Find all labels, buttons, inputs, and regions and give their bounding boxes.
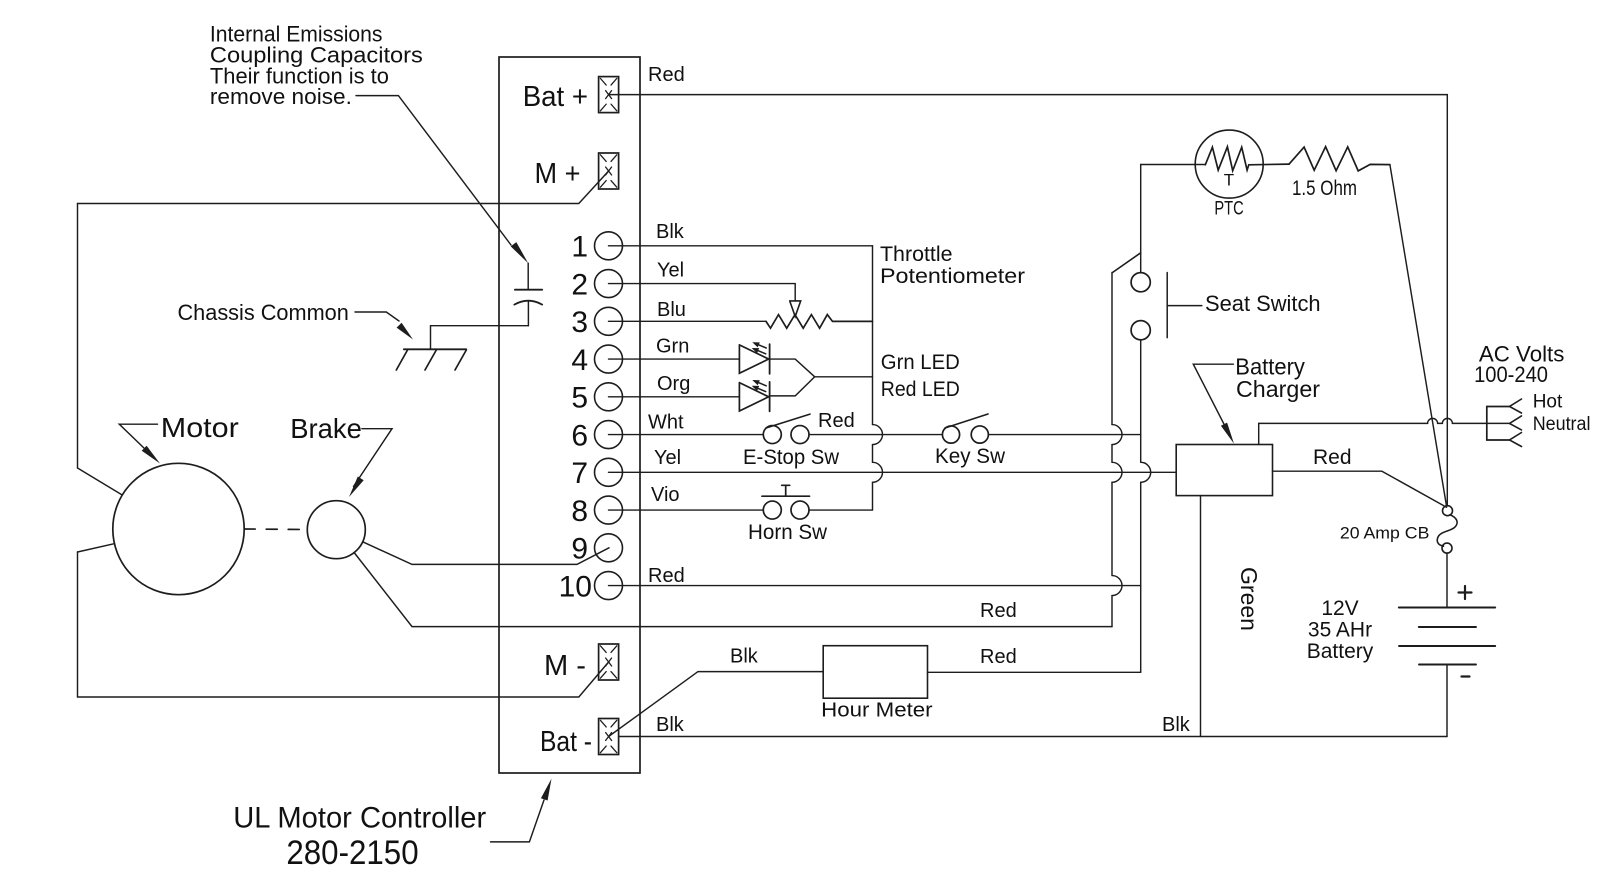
- svg-text:Brake: Brake: [290, 413, 362, 444]
- wire capacitor to chassis: [431, 326, 529, 350]
- wire seat sw to PTC: [1141, 164, 1206, 166]
- label Hour Meter: [821, 700, 933, 722]
- svg-text:Blk: Blk: [656, 221, 685, 243]
- wire left frame lower vertical: [77, 552, 79, 697]
- label 20 Amp CB: [1340, 523, 1430, 542]
- battery BT1 12V: [1399, 608, 1495, 665]
- wire pin7 Yel to charger: [609, 471, 1177, 473]
- pin 3 circle: [595, 307, 623, 335]
- label Red (e-stop): [818, 410, 855, 432]
- vertical bus x=872.5 with hops: [873, 246, 883, 510]
- label Battery Charger: [1235, 353, 1320, 402]
- wire LED merge chevron: [770, 359, 873, 396]
- label Horn Sw: [748, 521, 828, 544]
- wire pin6 Wht: [609, 434, 764, 436]
- svg-text:M -: M -: [544, 650, 586, 682]
- svg-text:Grn LED: Grn LED: [881, 351, 960, 374]
- seat switch S1: [1113, 165, 1151, 340]
- shaft motor-brake dashed: [244, 528, 307, 531]
- wire AC neutral with bumps: [1259, 418, 1510, 423]
- pin 4 number: [571, 344, 588, 377]
- wire horn sw to vertical: [809, 509, 873, 511]
- wire Bat- diag to hour meter: [609, 672, 824, 737]
- leader battery charger: [1193, 364, 1234, 444]
- svg-text:5: 5: [571, 382, 588, 415]
- svg-text:Neutral: Neutral: [1533, 414, 1591, 435]
- throttle potentiometer R2 zigzag: [766, 315, 873, 329]
- label Chassis Common: [178, 300, 349, 325]
- label Wht pin6: [648, 412, 684, 434]
- label Yel pin7: [654, 447, 681, 469]
- label Vio pin8: [651, 484, 680, 506]
- wire pin8 Vio: [609, 509, 764, 511]
- svg-text:12V: 12V: [1321, 597, 1358, 620]
- vertical x=1140.7 below seat switch with hop: [1141, 340, 1151, 673]
- hour meter box: [823, 646, 927, 699]
- connector M+: [599, 153, 619, 189]
- pin 8 circle: [595, 496, 623, 524]
- wire pin3 Blu: [609, 320, 767, 322]
- wire brake to pin9: [363, 542, 609, 565]
- label M -: [544, 650, 586, 682]
- label AC Volts: [1479, 341, 1565, 366]
- svg-text:20 Amp CB: 20 Amp CB: [1340, 523, 1430, 542]
- leader Brake: [349, 429, 392, 497]
- circuit breaker CB1 20 Amp: [1437, 506, 1457, 553]
- label Blk (green area): [1162, 714, 1191, 736]
- leader Motor: [119, 424, 160, 463]
- AC plug symbol: [1487, 399, 1522, 447]
- label Brake: [290, 413, 362, 444]
- label Green rotated: [1236, 567, 1262, 631]
- label Red (brake wire): [980, 600, 1017, 622]
- svg-text:1.5 Ohm: 1.5 Ohm: [1292, 177, 1357, 200]
- label Bat -: [540, 726, 592, 758]
- label Blk (bat-): [656, 714, 685, 736]
- UL motor controller box U1: [499, 57, 640, 773]
- svg-text:Charger: Charger: [1236, 376, 1320, 402]
- pin 10 circle: [595, 572, 623, 600]
- svg-text:4: 4: [571, 344, 588, 377]
- svg-text:E-Stop Sw: E-Stop Sw: [743, 446, 840, 469]
- wire charger Red to CB: [1273, 471, 1447, 507]
- wire bottom frame to M-: [78, 662, 609, 697]
- svg-text:Hot: Hot: [1533, 391, 1563, 412]
- pin 9 number: [571, 533, 588, 566]
- label T (PTC): [1224, 171, 1234, 190]
- wire Bat+ Red top rail: [609, 95, 1448, 506]
- svg-text:Key Sw: Key Sw: [935, 445, 1006, 468]
- label Blk pin1: [656, 221, 685, 243]
- battery plus sign: [1459, 586, 1472, 599]
- label 1.5 Ohm: [1292, 177, 1357, 200]
- wire left frame upper vertical: [77, 204, 79, 469]
- svg-text:remove noise.: remove noise.: [210, 84, 352, 109]
- pin 8 number: [571, 495, 588, 528]
- svg-text:Bat -: Bat -: [540, 726, 592, 758]
- wire pin4 Grn: [609, 358, 740, 360]
- connector Bat-: [599, 719, 619, 755]
- label Seat Switch: [1205, 291, 1321, 316]
- pin 1 number: [571, 231, 588, 264]
- pin 10 number: [559, 570, 592, 603]
- label Motor: [161, 412, 239, 443]
- svg-text:Yel: Yel: [654, 447, 681, 469]
- label Red pin10: [648, 565, 685, 587]
- vertical x=1112 (seat sw to red wire) with hops: [1112, 273, 1122, 627]
- wire hour meter Red to vertical: [928, 671, 1141, 673]
- svg-text:8: 8: [571, 495, 588, 528]
- leader note to capacitor: [356, 96, 528, 264]
- pin 1 circle: [595, 232, 623, 260]
- label 280-2150: [286, 834, 418, 872]
- wire M+ to frame: [78, 171, 609, 204]
- svg-text:Blk: Blk: [1162, 714, 1191, 736]
- label Grn LED: [881, 351, 960, 374]
- pin 4 circle: [595, 345, 623, 373]
- switch Key Sw: [942, 414, 988, 443]
- pin 9 circle: [595, 534, 623, 562]
- chassis ground symbol: [396, 349, 466, 370]
- label PTC: [1214, 198, 1243, 219]
- svg-text:7: 7: [571, 457, 588, 490]
- svg-text:Red: Red: [818, 410, 855, 432]
- label Throttle Potentiometer: [880, 243, 1025, 288]
- wire AC neutral into charger: [1258, 423, 1260, 444]
- brake B1 circle: [307, 501, 365, 559]
- switch E-Stop Sw: [763, 414, 810, 443]
- LED D2 red: [739, 380, 769, 411]
- label Blk (hour meter): [730, 646, 759, 668]
- leader UL controller: [491, 779, 552, 842]
- label Org pin5: [657, 373, 690, 395]
- svg-text:Vio: Vio: [651, 484, 680, 506]
- label Red LED: [881, 378, 960, 401]
- pin 6 circle: [595, 421, 623, 449]
- label Red (bat+): [648, 64, 685, 86]
- svg-text:Potentiometer: Potentiometer: [880, 265, 1025, 288]
- capacitor C1: [514, 263, 542, 326]
- svg-text:Green: Green: [1236, 567, 1262, 631]
- wire CB to battery plus: [1446, 553, 1448, 607]
- pin 3 number: [571, 306, 588, 339]
- label Key Sw: [935, 445, 1006, 468]
- wire motor stub lower: [78, 544, 114, 552]
- wire charger Green down: [1200, 496, 1202, 737]
- pin 7 number: [571, 457, 588, 490]
- svg-text:Blk: Blk: [730, 646, 759, 668]
- wire pin10 Red: [609, 585, 1141, 587]
- pin 2 number: [571, 268, 588, 301]
- svg-text:6: 6: [571, 419, 588, 452]
- svg-text:Blk: Blk: [656, 714, 685, 736]
- connector M-: [599, 644, 619, 680]
- svg-text:Red: Red: [980, 646, 1017, 668]
- wire brake to node at x1112 (Red): [354, 553, 1112, 627]
- label Hot: [1533, 391, 1563, 412]
- label Red (charger): [1313, 446, 1352, 469]
- svg-text:280-2150: 280-2150: [286, 834, 418, 872]
- label Yel pin2: [657, 260, 684, 282]
- label Red (hour meter): [980, 646, 1017, 668]
- LED D1 green: [739, 342, 769, 374]
- svg-text:10: 10: [559, 570, 592, 603]
- resistor R1 1.5 Ohm: [1289, 147, 1390, 171]
- label Grn pin4: [656, 336, 689, 358]
- wire motor stub upper: [78, 468, 122, 495]
- label UL Motor Controller: [233, 802, 486, 835]
- svg-text:T: T: [1224, 171, 1234, 190]
- svg-text:UL Motor Controller: UL Motor Controller: [233, 802, 486, 835]
- battery charger box: [1176, 445, 1272, 496]
- pin 5 number: [571, 382, 588, 415]
- svg-text:1: 1: [571, 231, 588, 264]
- svg-text:Grn: Grn: [656, 336, 689, 358]
- label Seat Switch bracket: [1167, 273, 1202, 338]
- svg-text:2: 2: [571, 268, 588, 301]
- pin 6 number: [571, 419, 588, 452]
- svg-text:Blu: Blu: [657, 299, 686, 321]
- leader chassis common: [355, 312, 413, 340]
- label 12V 35AHr Battery: [1307, 597, 1374, 663]
- pin 5 circle: [595, 383, 623, 411]
- battery minus sign: [1462, 675, 1470, 677]
- pot wiper arrow: [790, 301, 801, 317]
- wire pin1 Blk: [609, 245, 873, 247]
- svg-text:35 AHr: 35 AHr: [1308, 619, 1372, 642]
- wire pin2 Yel to wiper: [609, 284, 796, 301]
- svg-text:Hour Meter: Hour Meter: [821, 700, 933, 722]
- motor M1 circle: [113, 463, 244, 594]
- thermistor PTC RT1: [1195, 130, 1289, 198]
- svg-text:Red: Red: [648, 565, 685, 587]
- svg-text:M +: M +: [535, 158, 581, 190]
- svg-text:3: 3: [571, 306, 588, 339]
- label Blu pin3: [657, 299, 686, 321]
- svg-text:Horn Sw: Horn Sw: [748, 521, 828, 544]
- svg-text:Throttle: Throttle: [880, 243, 953, 266]
- label Bat +: [523, 81, 588, 113]
- wire e-stop to key sw: [809, 434, 942, 436]
- svg-text:Red: Red: [648, 64, 685, 86]
- wire key sw to node: [988, 434, 1140, 436]
- svg-text:Battery: Battery: [1307, 640, 1374, 663]
- label Neutral: [1533, 414, 1591, 435]
- label M +: [535, 158, 581, 190]
- svg-text:Chassis Common: Chassis Common: [178, 300, 349, 325]
- svg-text:Org: Org: [657, 373, 690, 395]
- svg-text:Yel: Yel: [657, 260, 684, 282]
- note internal emissions text: [210, 22, 423, 109]
- svg-text:Red LED: Red LED: [881, 378, 960, 401]
- connector Bat+: [599, 77, 619, 113]
- svg-text:Red: Red: [980, 600, 1017, 622]
- svg-text:Motor: Motor: [161, 412, 239, 443]
- svg-text:Bat +: Bat +: [523, 81, 588, 113]
- switch Horn Sw: [762, 485, 810, 519]
- pin 7 circle: [595, 458, 623, 486]
- svg-text:Seat Switch: Seat Switch: [1205, 291, 1321, 316]
- wire pin5 Org: [609, 396, 740, 398]
- wire 1.5 Ohm diagonal to CB: [1390, 165, 1447, 506]
- label 100-240: [1474, 362, 1548, 387]
- svg-text:Red: Red: [1313, 446, 1352, 469]
- svg-text:Wht: Wht: [648, 412, 684, 434]
- svg-text:PTC: PTC: [1214, 198, 1243, 219]
- pin 2 circle: [595, 270, 623, 298]
- wire Bat- bottom Blk: [619, 736, 1447, 738]
- svg-text:100-240: 100-240: [1474, 362, 1548, 387]
- label E-Stop Sw: [743, 446, 840, 469]
- wire battery minus down: [1446, 665, 1448, 737]
